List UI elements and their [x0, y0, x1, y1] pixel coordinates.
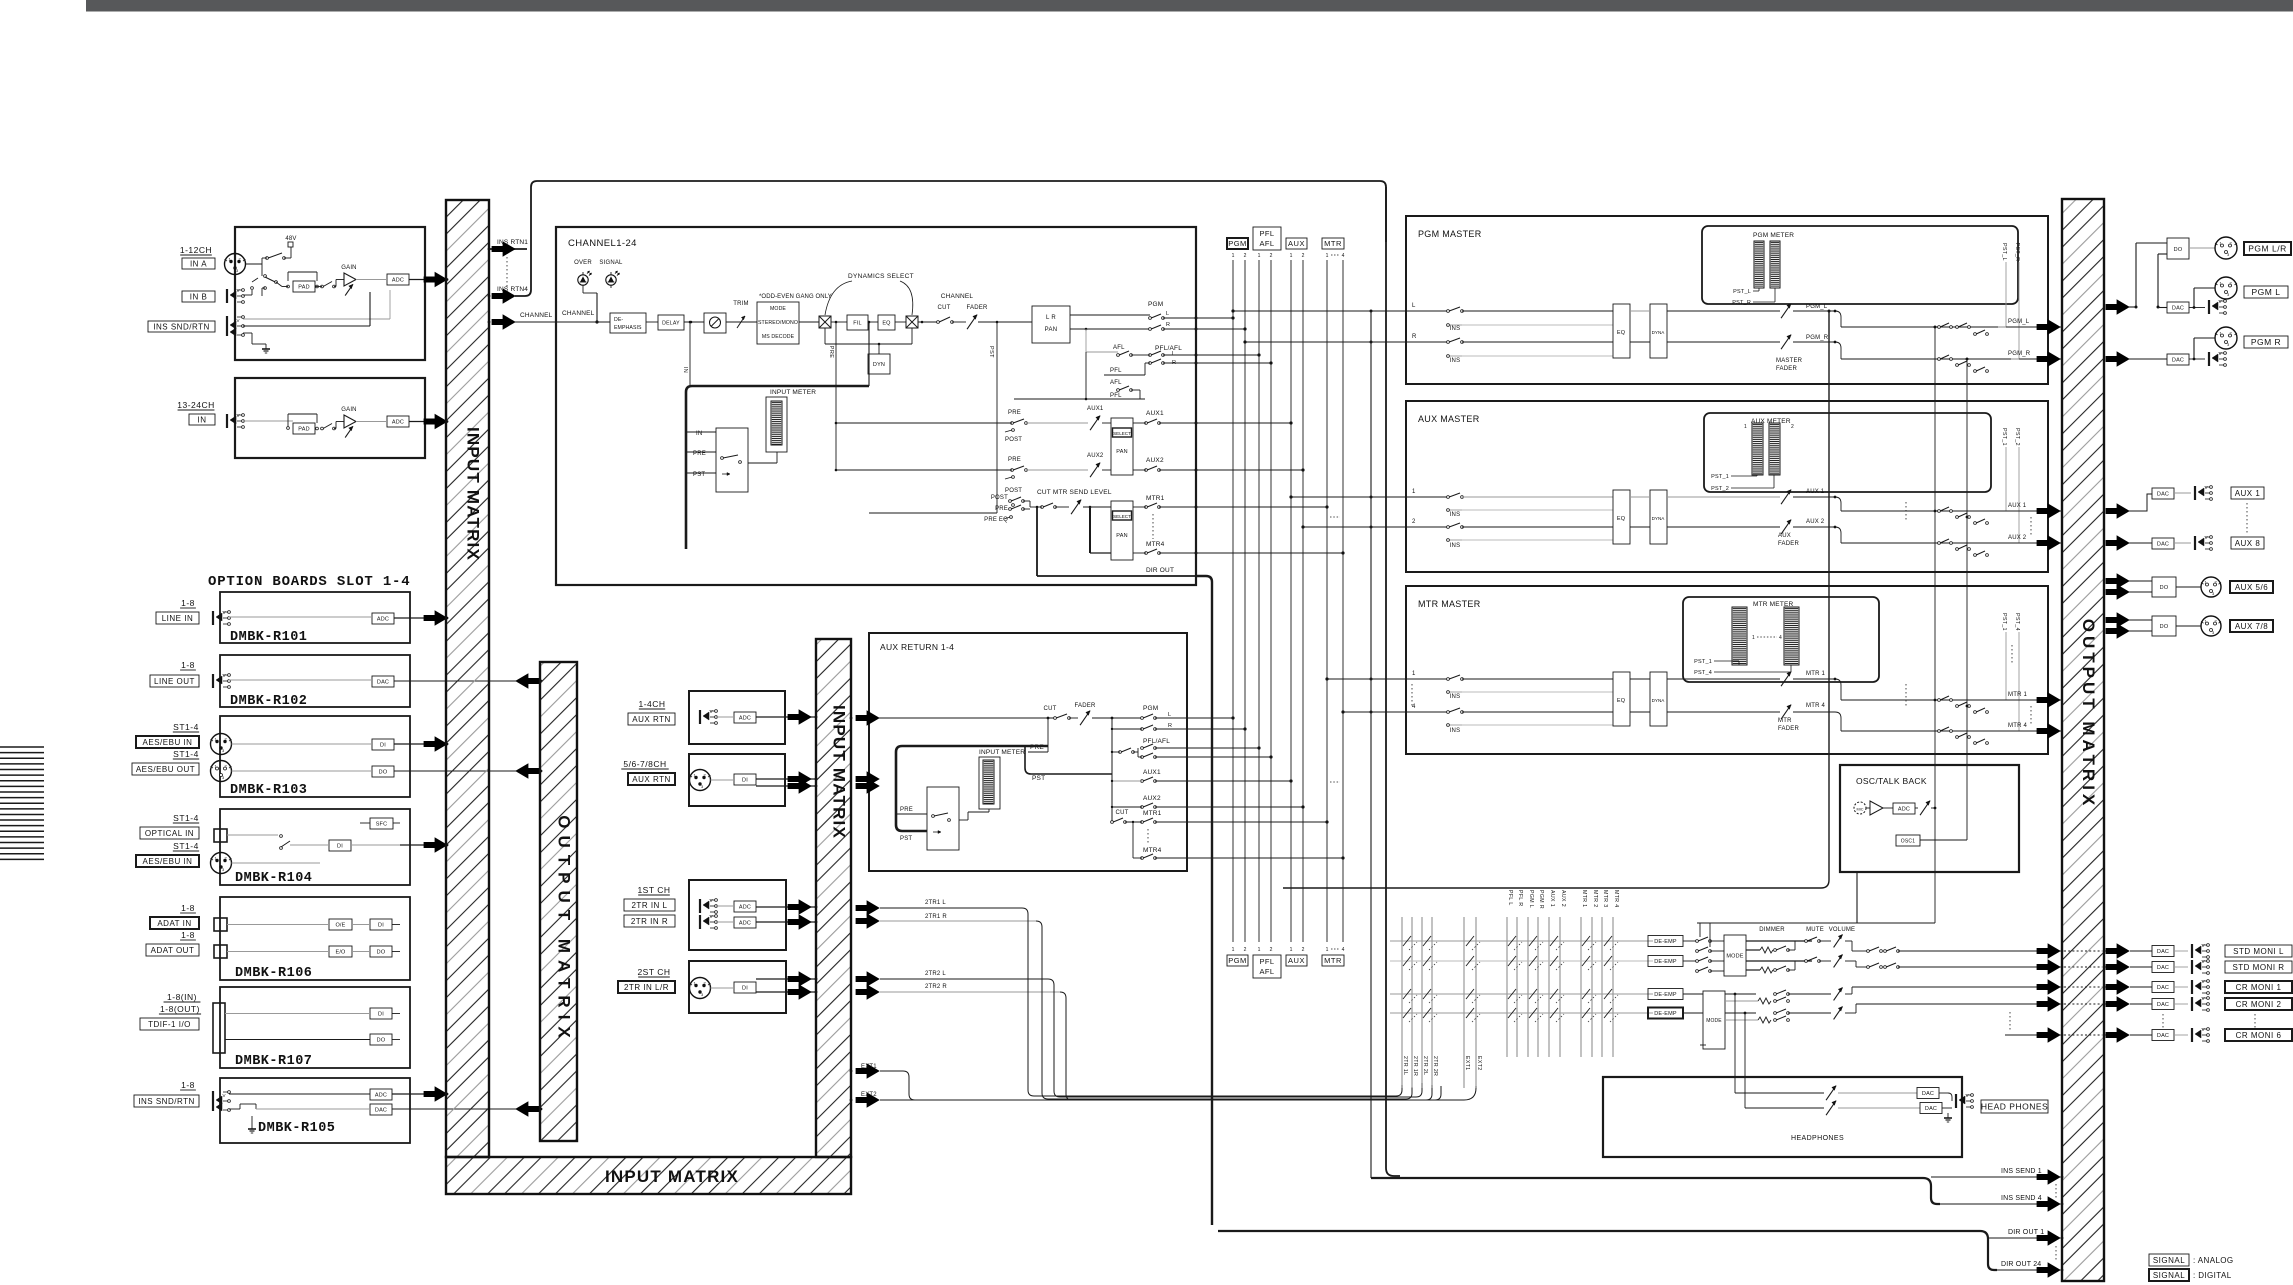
- PGM meter L: [1754, 241, 1764, 288]
- wire: [393, 822, 400, 824]
- svg-text:PGM: PGM: [1143, 705, 1158, 712]
- svg-text:PGM: PGM: [1148, 301, 1163, 308]
- wire: [646, 321, 658, 323]
- svg-text:2TR IN L/R: 2TR IN L/R: [624, 983, 669, 992]
- svg-text:FADER: FADER: [1778, 726, 1799, 732]
- svg-text:CUT MTR SEND LEVEL: CUT MTR SEND LEVEL: [1037, 489, 1112, 496]
- input meter outline: [766, 397, 787, 452]
- svg-text:INS: INS: [1450, 694, 1461, 700]
- svg-text:AUX2: AUX2: [1143, 795, 1161, 802]
- svg-text:EQ: EQ: [1617, 698, 1626, 704]
- meter wires: [1714, 660, 1739, 662]
- arrow to input matrix: [424, 273, 447, 287]
- label CR MONI 1: [2225, 981, 2292, 993]
- DE-EMP block 4: [1648, 1008, 1683, 1019]
- svg-text:FIL: FIL: [853, 320, 862, 326]
- svg-text:MTR 2: MTR 2: [1592, 890, 1598, 908]
- svg-text:MODE: MODE: [770, 306, 786, 312]
- svg-text:DELAY: DELAY: [662, 320, 680, 326]
- svg-text:OSC/TALK BACK: OSC/TALK BACK: [1856, 776, 1927, 786]
- XLR PGM L: [2215, 277, 2237, 299]
- wire hp jack: [1939, 1092, 1948, 1094]
- wire: [334, 286, 336, 288]
- DAC block HP L: [1917, 1088, 1939, 1099]
- wire: [1683, 940, 1697, 942]
- MTR 4 input wire: [1406, 711, 1448, 713]
- thick select bus: [686, 386, 869, 549]
- MTR PRE switch: [1009, 508, 1012, 511]
- PGM R input wire: [1406, 341, 1448, 343]
- arrow PGM L into bar: [2037, 320, 2060, 334]
- svg-text:AUX1: AUX1: [1146, 410, 1164, 417]
- arrow out 2tr1R: [856, 914, 879, 928]
- svg-text:AES/EBU IN: AES/EBU IN: [143, 738, 193, 747]
- svg-text:OVER: OVER: [574, 260, 592, 266]
- ADC block: [387, 274, 409, 285]
- svg-text:MTR 3: MTR 3: [1602, 890, 1608, 908]
- label 2TR IN L/R: [618, 981, 675, 993]
- bus to master wires: [1233, 310, 1407, 312]
- svg-text:PFL: PFL: [1260, 229, 1275, 238]
- AUX1 fader: [1090, 416, 1100, 430]
- box MTR MASTER: [1406, 586, 2048, 754]
- svg-text:INPUT METER: INPUT METER: [979, 749, 1025, 756]
- wire PFL bus: [1014, 398, 1145, 400]
- channel FADER: [967, 315, 977, 329]
- svg-text:MTR 4: MTR 4: [2008, 723, 2027, 729]
- DE-EMP block 3: [1648, 989, 1683, 1000]
- wire: [2174, 986, 2188, 988]
- jack STD MONI R: [2191, 960, 2193, 974]
- svg-text:AUX RTN: AUX RTN: [632, 715, 670, 724]
- 2tr feed bends: [1022, 908, 1402, 1096]
- headphone jack: [1955, 1094, 1957, 1108]
- svg-text:LINE IN: LINE IN: [162, 614, 194, 623]
- svg-text:DAC: DAC: [2157, 1002, 2169, 1008]
- svg-text:FADER: FADER: [1074, 703, 1095, 709]
- jack aux rtn: [699, 710, 701, 724]
- box 2ST CH: [689, 961, 786, 1013]
- arrow CR1 into bar: [2037, 980, 2060, 994]
- svg-text:DAC: DAC: [2157, 541, 2169, 547]
- svg-text:PGM L/R: PGM L/R: [2248, 244, 2286, 254]
- svg-text:1-12CH: 1-12CH: [180, 245, 212, 255]
- wire: [2176, 586, 2201, 588]
- jack AUX8: [2194, 536, 2196, 550]
- talkback bus corner: [1697, 922, 1935, 924]
- wire pre eq: [869, 512, 997, 514]
- svg-text:PST: PST: [1032, 775, 1045, 782]
- svg-text:SELECT: SELECT: [1113, 514, 1131, 519]
- AFL switch: [1117, 354, 1120, 357]
- box aux rtn 5-8ch: [689, 754, 785, 806]
- box CHANNEL 1-24: [556, 227, 1196, 585]
- arrows AUX56 out of bar: [2106, 574, 2129, 588]
- DO block AUX78: [2152, 616, 2176, 636]
- main channel wire: [556, 321, 610, 323]
- svg-text:1ST CH: 1ST CH: [637, 885, 670, 895]
- arrow aux di 2: [788, 779, 811, 793]
- wire: [918, 321, 938, 323]
- svg-text:EQ: EQ: [1617, 516, 1626, 522]
- DAC block STD MONI R: [2152, 962, 2174, 973]
- ADC block R101: [372, 613, 394, 624]
- svg-text:DI: DI: [380, 742, 386, 748]
- talkback fader: [1920, 801, 1930, 815]
- svg-text:MTR 1: MTR 1: [2008, 692, 2027, 698]
- svg-text:V: V: [2202, 1027, 2205, 1032]
- svg-text:PST_4: PST_4: [1694, 670, 1712, 676]
- svg-text:1-8: 1-8: [181, 930, 195, 940]
- wire: [2174, 542, 2191, 544]
- arrow AUX1 out of bar: [2106, 504, 2129, 518]
- svg-text:FADER: FADER: [1776, 366, 1797, 372]
- svg-text:PGM R: PGM R: [2251, 337, 2281, 347]
- board DMBK-R107: [220, 987, 410, 1068]
- monitor pickup switches MTR: [1938, 699, 1941, 702]
- wire: [1630, 310, 1650, 312]
- svg-text:PST_4: PST_4: [2014, 613, 2020, 631]
- svg-text:PRE: PRE: [1008, 410, 1021, 416]
- wire: [229, 1093, 370, 1095]
- arrow from output matrix to R105 DAC: [516, 1102, 539, 1116]
- wire: [1710, 940, 1724, 942]
- arrow MTR4 into bar: [2037, 724, 2060, 738]
- wire: [243, 420, 293, 422]
- ADC block 2: [387, 416, 409, 427]
- svg-text:AUX 1: AUX 1: [1806, 489, 1825, 495]
- svg-text:OUTPUT MATRIX: OUTPUT MATRIX: [2079, 619, 2098, 810]
- bus dashes: [1330, 516, 1340, 518]
- L R PAN block: [1032, 306, 1070, 343]
- svg-text:PAN: PAN: [1116, 449, 1128, 455]
- monitor row CR 2: [1390, 1012, 1653, 1014]
- ADC aux rtn: [734, 712, 756, 723]
- AUX fader 2: [1781, 520, 1791, 534]
- DIR OUT thick bus: [1218, 1231, 1997, 1270]
- wire: [2174, 492, 2191, 494]
- svg-text:PST_2: PST_2: [2014, 428, 2020, 446]
- MTR fader 4: [1781, 705, 1791, 719]
- arrow CR MONI 1 out of bar: [2106, 980, 2129, 994]
- svg-text:2: 2: [1244, 253, 1247, 259]
- AUX1 INS switch: [1447, 496, 1450, 499]
- DYNA block PGM: [1650, 304, 1667, 358]
- svg-text:ST1-4: ST1-4: [173, 841, 199, 851]
- wire: [868, 321, 878, 323]
- svg-text:1-8: 1-8: [181, 1080, 195, 1090]
- wire: [716, 716, 734, 718]
- PGM L ins return: [1448, 324, 1462, 326]
- svg-text:2TR 2R: 2TR 2R: [1432, 1056, 1438, 1076]
- wire meter link: [959, 819, 968, 821]
- svg-text:AUX: AUX: [1288, 956, 1305, 965]
- svg-text:4: 4: [1342, 253, 1345, 259]
- svg-text:EQ: EQ: [1617, 330, 1626, 336]
- svg-text:DE-EMP: DE-EMP: [1654, 959, 1677, 965]
- wire DO split: [2135, 243, 2137, 307]
- arrow STD MONI L out of bar: [2106, 944, 2129, 958]
- label AUX 8: [2231, 537, 2264, 549]
- arrow CR MONI 6 out of bar: [2106, 1028, 2129, 1042]
- svg-text:MUTE: MUTE: [1806, 927, 1824, 933]
- svg-text:INS: INS: [1450, 358, 1461, 364]
- svg-text:PGM_L: PGM_L: [2008, 319, 2030, 325]
- svg-text:DO: DO: [377, 1037, 386, 1043]
- svg-text:DIR OUT 24: DIR OUT 24: [2001, 1261, 2041, 1268]
- ar PFL L switch: [1141, 747, 1144, 750]
- svg-text:MODE: MODE: [1706, 1018, 1722, 1024]
- svg-text:CR MONI 1: CR MONI 1: [2236, 983, 2282, 992]
- AUX2 INS switch: [1447, 526, 1450, 529]
- svg-text:PST_1: PST_1: [2001, 428, 2007, 446]
- wire: [290, 844, 329, 846]
- svg-text:DMBK-R107: DMBK-R107: [235, 1054, 312, 1069]
- wire: [227, 924, 329, 926]
- wire CR6: [2005, 1034, 2040, 1036]
- AUX 2 input wire: [1406, 526, 1448, 528]
- svg-text:OUTPUT MATRIX: OUTPUT MATRIX: [555, 815, 574, 1045]
- DIR OUT bus: [1196, 576, 1212, 1225]
- FIL block: [847, 315, 868, 330]
- svg-text:DO: DO: [2160, 585, 2169, 591]
- label LINE IN: [156, 612, 199, 624]
- svg-text:PST_1: PST_1: [2001, 613, 2007, 631]
- AUX1 PRE switch: [1011, 422, 1014, 425]
- AUX meter box: [1704, 413, 1991, 492]
- svg-text:DAC: DAC: [2157, 985, 2169, 991]
- svg-text:SIGNAL: SIGNAL: [599, 260, 623, 266]
- svg-text:DMBK-R103: DMBK-R103: [230, 783, 307, 798]
- OUTPUT MATRIX bar right: [2062, 199, 2104, 1281]
- svg-text:DI: DI: [378, 922, 384, 928]
- INPUT MATRIX bar bottom: [446, 1157, 851, 1194]
- label PGM L/R: [2244, 242, 2291, 255]
- MTR fader 1: [1781, 672, 1791, 686]
- MODE block: [757, 302, 799, 344]
- svg-text:DAC: DAC: [2172, 305, 2184, 311]
- svg-text:AUX RETURN 1-4: AUX RETURN 1-4: [880, 642, 954, 652]
- MTR meter box: [1683, 597, 1879, 682]
- PGM L input wire: [1406, 310, 1448, 312]
- svg-text:PRE: PRE: [900, 807, 913, 813]
- PGM R INS switch: [1447, 341, 1450, 344]
- aux return meter bar: [983, 760, 994, 804]
- wire: [356, 279, 387, 281]
- PAD bypass switch: [287, 285, 290, 288]
- svg-text:PGM L: PGM L: [2252, 287, 2281, 297]
- svg-text:HEADPHONES: HEADPHONES: [1791, 1135, 1844, 1142]
- svg-text:INS SND/RTN: INS SND/RTN: [153, 322, 209, 331]
- svg-text:1-8: 1-8: [181, 598, 195, 608]
- E/O block: [329, 946, 352, 957]
- svg-text:1-8: 1-8: [181, 903, 195, 913]
- svg-text:*ODD-EVEN GANG ONLY: *ODD-EVEN GANG ONLY: [759, 294, 832, 300]
- svg-text:DE-: DE-: [614, 317, 623, 323]
- label PGM R: [2244, 336, 2288, 348]
- svg-text:1-4CH: 1-4CH: [638, 699, 665, 709]
- dotted mtr meterlink: [2011, 645, 2013, 665]
- jack IN 13-24: [226, 414, 228, 428]
- svg-text:PGM: PGM: [1228, 239, 1247, 248]
- bus label MTR top: [1322, 238, 1344, 249]
- svg-text:ADC: ADC: [739, 920, 751, 926]
- jack STD MONI L: [2191, 944, 2193, 958]
- label AUX 1: [2231, 487, 2264, 499]
- bus label PGM top: [1227, 238, 1248, 249]
- label AUX 5/6: [2230, 581, 2273, 593]
- svg-text:L R: L R: [1046, 315, 1056, 321]
- svg-text:DI: DI: [742, 777, 748, 783]
- svg-text:ADAT OUT: ADAT OUT: [151, 946, 195, 955]
- ground R105: [251, 1124, 253, 1129]
- svg-text:ST1-4: ST1-4: [173, 813, 199, 823]
- jack CR MONI 1: [2191, 980, 2193, 994]
- cr switches: [1774, 993, 1777, 996]
- svg-text:V: V: [223, 610, 226, 615]
- svg-text:INS RTN4: INS RTN4: [497, 286, 528, 293]
- wire: [2174, 950, 2188, 952]
- label STD MONI L: [2225, 945, 2292, 957]
- board DMBK-R103: [220, 716, 410, 797]
- svg-text:PFL: PFL: [1110, 393, 1122, 399]
- svg-text:1: 1: [1232, 947, 1235, 953]
- svg-text:V: V: [2202, 996, 2205, 1001]
- svg-text:PFL: PFL: [1260, 957, 1275, 966]
- PAD box: [293, 281, 315, 292]
- svg-text:1: 1: [1744, 424, 1747, 430]
- talkback bus vertical: [1934, 327, 1936, 923]
- aux return meter outline: [979, 757, 1000, 809]
- svg-text:1: 1: [1752, 635, 1755, 641]
- arrow 2tr2 b: [788, 985, 811, 999]
- wire: [225, 1013, 370, 1015]
- PAD box 2: [293, 423, 315, 434]
- CUT switch: [937, 321, 940, 324]
- svg-text:SELECT: SELECT: [1113, 431, 1131, 436]
- ground: [265, 344, 267, 349]
- bus label PFL/AFL top: [1253, 227, 1281, 250]
- svg-text:1-8(OUT): 1-8(OUT): [160, 1004, 200, 1014]
- label AUX RTN 2: [628, 773, 675, 785]
- wire sleeve: [243, 332, 252, 334]
- svg-text:STEREO/MONO: STEREO/MONO: [758, 320, 798, 326]
- EXT1 arrow: [856, 1064, 879, 1078]
- legend SIGNAL ANALOG: [2149, 1254, 2189, 1266]
- ADC talkback: [1893, 803, 1915, 814]
- ADAT out connector: [214, 945, 227, 958]
- svg-text:CHANNEL: CHANNEL: [562, 310, 595, 317]
- svg-text:EMPHASIS: EMPHASIS: [614, 325, 642, 331]
- ar PFL preselect switch: [1119, 751, 1122, 754]
- svg-text:AUX RTN: AUX RTN: [632, 775, 670, 784]
- EXT wires: [880, 1071, 1441, 1100]
- svg-text:DMBK-R101: DMBK-R101: [230, 630, 307, 645]
- svg-text:PST_1: PST_1: [1711, 474, 1729, 480]
- monitor row STD L: [1390, 940, 1653, 942]
- svg-text:MTR4: MTR4: [1146, 541, 1165, 548]
- PST verticals AUX: [2005, 447, 2007, 511]
- wire: [227, 951, 329, 953]
- AUX1 out switch: [1145, 422, 1148, 425]
- monitor row CR 1: [1390, 993, 1653, 995]
- board DMBK-R106: [220, 897, 410, 980]
- DI 2tr2: [734, 982, 756, 993]
- svg-text:PGM L: PGM L: [1528, 890, 1534, 908]
- label 2TR IN L: [624, 899, 675, 911]
- DI block R106: [370, 919, 392, 930]
- svg-text:TDIF-1 I/O: TDIF-1 I/O: [148, 1020, 191, 1029]
- svg-text:AUX2: AUX2: [1087, 453, 1104, 459]
- svg-text:V: V: [223, 1093, 226, 1098]
- svg-text:V: V: [710, 709, 713, 714]
- meter select box: [716, 428, 748, 492]
- multiplier X1: [819, 316, 831, 328]
- input box 1-12CH: [235, 227, 425, 360]
- MTR4 switch: [1145, 552, 1148, 555]
- svg-text:ADAT IN: ADAT IN: [157, 919, 191, 928]
- svg-text:CHANNEL: CHANNEL: [941, 293, 974, 300]
- ar AUX2 switch: [1141, 806, 1144, 809]
- EXT2 arrow: [856, 1093, 879, 1107]
- jack PGM R: [2208, 352, 2210, 366]
- wire: [726, 321, 757, 323]
- wires 2tr2: [711, 987, 735, 989]
- svg-text:2TR IN L: 2TR IN L: [631, 901, 667, 910]
- EQ block AUX: [1613, 490, 1630, 544]
- phase block: [704, 313, 726, 333]
- svg-text:PST_L: PST_L: [2001, 243, 2007, 261]
- svg-text:1: 1: [1258, 253, 1261, 259]
- wire mtr thick: [1083, 506, 1111, 508]
- jack 2tr L: [699, 899, 701, 913]
- MTR1 ins return: [1448, 691, 1462, 693]
- optical/AES select switch: [227, 834, 278, 836]
- aux return CUT switch: [1054, 717, 1057, 720]
- monitor jog CR: [1845, 993, 1852, 995]
- svg-text:1: 1: [1326, 253, 1329, 259]
- svg-text:INS SEND 4: INS SEND 4: [2001, 1195, 2042, 1202]
- arrow INS SEND 4: [2037, 1197, 2060, 1211]
- svg-text:INS: INS: [1450, 326, 1461, 332]
- arrow AUX2 into bar: [2037, 536, 2060, 550]
- svg-text:POST: POST: [1005, 488, 1022, 494]
- svg-text:MTR4: MTR4: [1143, 847, 1162, 854]
- bus PFL1: [1258, 260, 1260, 942]
- wire afl2: [1131, 389, 1140, 391]
- svg-text:DIMMER: DIMMER: [1759, 927, 1785, 933]
- svg-text:PGM_R: PGM_R: [2008, 351, 2031, 357]
- label AES/EBU OUT: [132, 763, 199, 775]
- talkback mic: [1854, 802, 1866, 814]
- arrow PGM out of bar: [2106, 300, 2129, 314]
- left registration marks: [0, 746, 44, 748]
- wire send: [243, 318, 390, 320]
- wire: [246, 263, 263, 265]
- PGM master fader R: [1781, 335, 1791, 349]
- AUX2 ins return: [1448, 539, 1462, 541]
- svg-text:GAIN: GAIN: [341, 407, 356, 413]
- MTR4 ins return: [1448, 724, 1462, 726]
- wire mtr join: [1023, 500, 1030, 502]
- svg-text:DMBK-R106: DMBK-R106: [235, 966, 312, 981]
- arrow R103 DI to input matrix: [424, 737, 447, 751]
- svg-text:DO: DO: [2174, 247, 2183, 253]
- svg-text:2TR IN R: 2TR IN R: [631, 917, 668, 926]
- svg-text:2TR1 L: 2TR1 L: [925, 900, 946, 906]
- wire dim: [1788, 949, 1795, 951]
- wire PGM R: [1070, 328, 1150, 330]
